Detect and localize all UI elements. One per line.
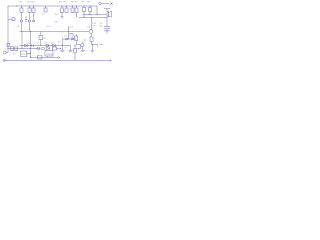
wire col22 join xyxy=(21,46,23,49)
diode D4 xyxy=(46,44,49,47)
wire Q1 emitter to bus xyxy=(21,23,23,32)
wire R3 down xyxy=(33,13,35,20)
wire corner right xyxy=(77,45,81,49)
wire audio line A xyxy=(84,14,107,16)
wire col68 vertical xyxy=(68,26,70,39)
connector J1 circle xyxy=(6,52,8,54)
resistor R5 xyxy=(66,6,68,8)
resistor R7 xyxy=(76,6,78,8)
wire lower row arrow xyxy=(58,57,60,59)
variable cap VC2 xyxy=(42,47,45,50)
wire Q2 collector xyxy=(29,13,31,20)
component box U1 xyxy=(45,51,53,57)
ground under R10 xyxy=(91,45,93,51)
wire signal row mid xyxy=(20,45,71,47)
battery BT1 box xyxy=(21,51,27,57)
wire row to C6 xyxy=(57,48,60,50)
resistor R1 xyxy=(21,6,23,8)
resistor R11 xyxy=(75,34,77,36)
resistor R12 series xyxy=(15,47,18,51)
ground under C3 xyxy=(106,29,108,31)
diode D6 xyxy=(66,38,68,40)
resistor R8 xyxy=(83,6,85,8)
wire audio line B xyxy=(79,16,107,18)
wire Q2 emitter to bus xyxy=(29,23,31,32)
wire input row xyxy=(8,48,41,50)
wire col22 below bus xyxy=(21,32,23,46)
wire R8 down to node xyxy=(83,12,85,18)
wire col30 down xyxy=(30,49,32,58)
tiny labels xyxy=(13,2,113,56)
wire Q3 base drop xyxy=(91,17,93,29)
wire Q1 collector xyxy=(21,13,23,20)
resistor R15 xyxy=(74,45,76,49)
speaker LS1 xyxy=(107,12,108,18)
transistor Q4 xyxy=(81,43,84,46)
ground under Q4 xyxy=(82,47,84,50)
antenna bar xyxy=(104,8,110,10)
diode D5 xyxy=(53,44,56,47)
capacitor C5 xyxy=(32,44,33,47)
resistor R14 xyxy=(38,56,43,59)
wire col73 stub xyxy=(69,33,74,35)
resistor R6 xyxy=(72,6,74,8)
wire right drop from top rail xyxy=(96,6,98,15)
svg-text:LM386: LM386 xyxy=(46,54,53,56)
wire R7 down to node xyxy=(76,13,78,18)
wire top rail xyxy=(8,5,97,7)
diode D7 xyxy=(71,38,73,40)
capacitor C6 to ground xyxy=(62,39,64,51)
diode D1 xyxy=(32,20,34,22)
antenna AE1 xyxy=(99,2,101,4)
svg-text:100u: 100u xyxy=(99,44,105,46)
wire R9 down to node xyxy=(89,12,91,15)
diode D3 xyxy=(25,44,28,47)
wire mid bus xyxy=(20,31,89,33)
transistor Q2 xyxy=(28,20,31,23)
resistor R10 emitter of Q3 xyxy=(91,34,93,37)
resistor R4 xyxy=(61,6,63,8)
wire R4 stub xyxy=(61,13,63,17)
capacitor C3 plates xyxy=(106,17,108,26)
junction dots xyxy=(8,6,98,59)
capacitor C7 to ground xyxy=(70,46,72,51)
component box X1 xyxy=(40,32,42,36)
svg-text:D1 D2: D1 D2 xyxy=(65,35,72,37)
wire under R10 xyxy=(92,42,98,45)
resistor R2 xyxy=(29,6,31,8)
diode D8 xyxy=(47,47,50,50)
capacitor C8 series xyxy=(11,47,14,51)
wire BT1 to col30 xyxy=(27,53,31,55)
wire bottom ground rail xyxy=(4,60,111,62)
resistor R13 xyxy=(53,47,57,50)
wire Q4 collector xyxy=(82,42,84,44)
resistor R3 xyxy=(33,6,35,8)
capacitor C2 xyxy=(25,16,27,20)
wire left rail xyxy=(7,6,9,53)
wire diode row xyxy=(63,38,76,40)
transistor Q1 xyxy=(20,20,23,23)
wire lower row xyxy=(31,57,59,59)
variable cap VC1 xyxy=(37,47,40,50)
wire U1 pin stub xyxy=(47,56,49,58)
diode D2 on left rail xyxy=(8,18,12,20)
capacitor C1 xyxy=(45,6,47,8)
transistor Q3 xyxy=(89,30,93,34)
capacitor C4 on rail xyxy=(7,43,10,46)
node bottom-left terminal xyxy=(3,59,5,61)
wire col30 below bus xyxy=(30,32,32,49)
wire Q4 base xyxy=(76,44,80,46)
wire bottom arrow tick xyxy=(110,60,111,62)
resistor R9 xyxy=(89,6,91,8)
